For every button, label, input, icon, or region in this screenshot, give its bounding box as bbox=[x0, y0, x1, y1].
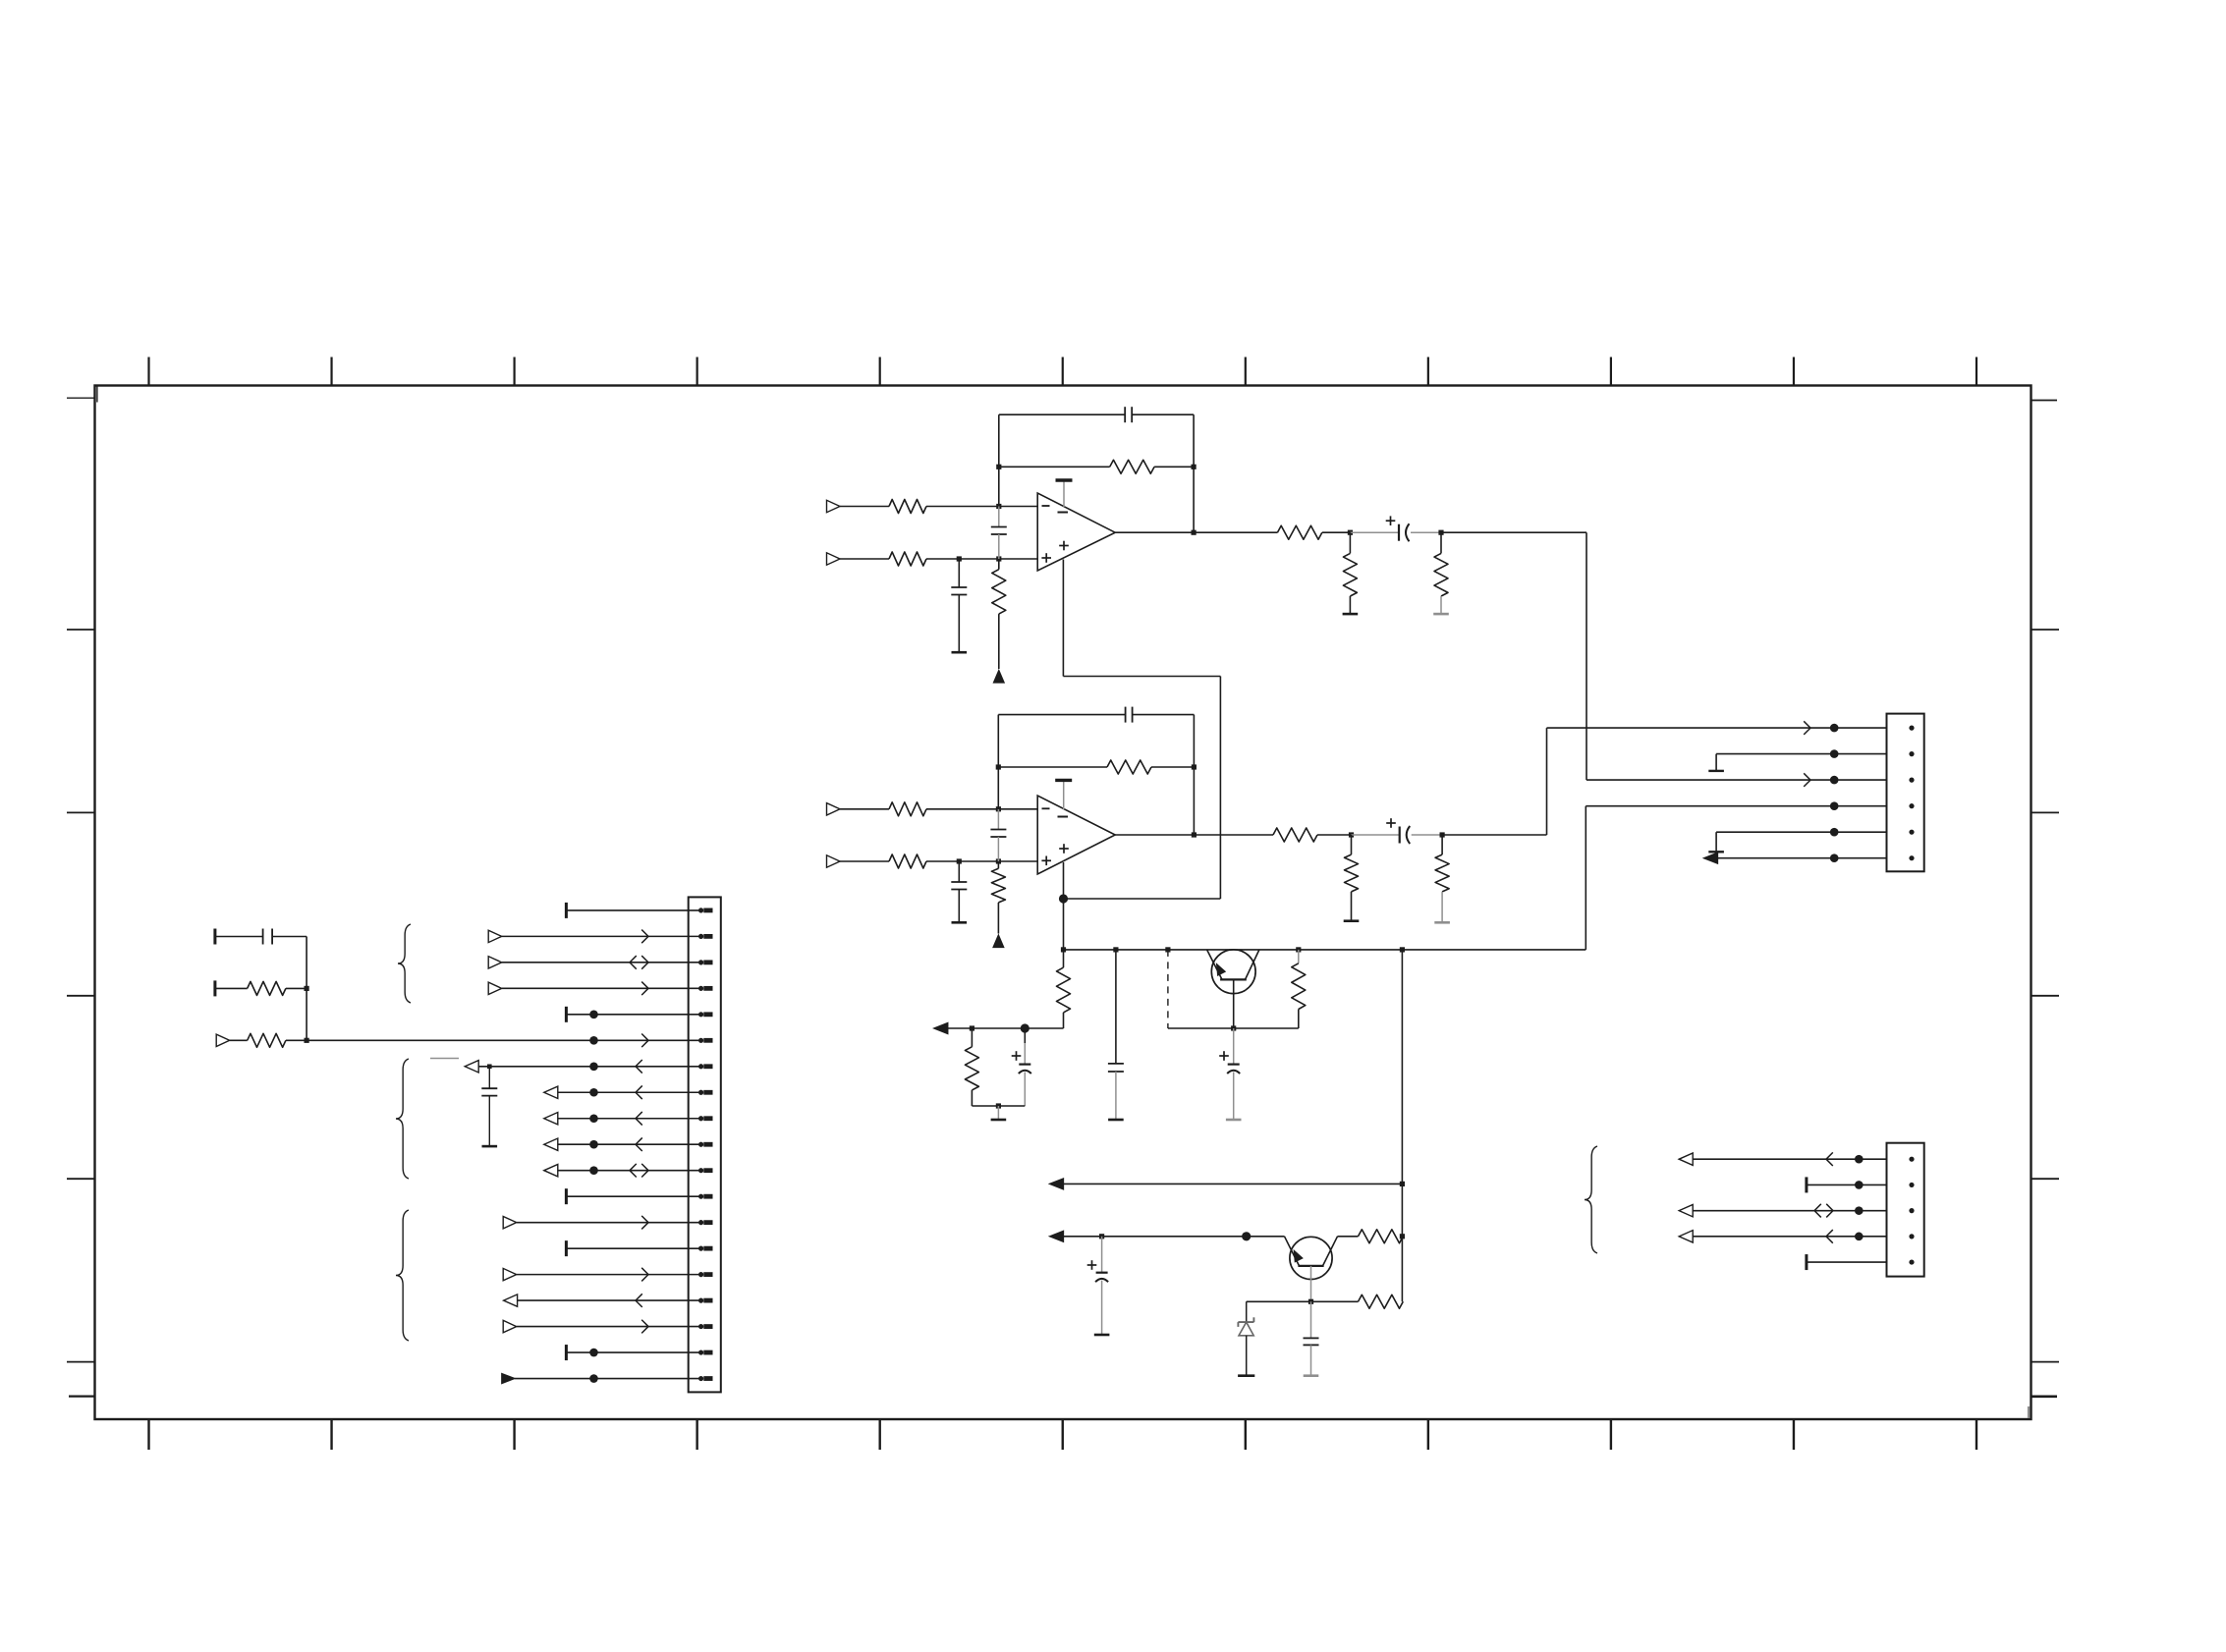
brace B3 (CN1 pins 13-17) bbox=[396, 1210, 409, 1341]
CN1 pin6 chevron bbox=[641, 1034, 648, 1048]
node J5 bbox=[1192, 465, 1196, 469]
top-right corner register mark bbox=[2031, 400, 2058, 402]
ground bar under D4 bbox=[1238, 1374, 1254, 1377]
capacitor C5 (across op-amp inputs) bbox=[990, 809, 1006, 861]
vertical tie wire bbox=[306, 937, 307, 1041]
CN3 pin4 wire with open arrow bbox=[1679, 1231, 1886, 1242]
resistor R4 (feedback) bbox=[1110, 460, 1154, 473]
node D1 (junction dot) bbox=[1059, 894, 1068, 903]
feedback loop wire (IC1b) bbox=[998, 715, 1194, 835]
node J27 bbox=[1400, 1234, 1405, 1239]
resistor R8 bbox=[889, 802, 926, 816]
node J14 bbox=[1192, 832, 1196, 837]
Q1 emitter slant bbox=[1207, 950, 1222, 980]
CN1 pin5 bar terminal bbox=[565, 1007, 568, 1022]
ground bar under C12 bbox=[1094, 1334, 1110, 1337]
Q2 base lead bbox=[1310, 1266, 1312, 1301]
resistor R15 (bus to base rail) bbox=[1057, 950, 1071, 1028]
capacitor C13 (base to bar) bbox=[1304, 1301, 1319, 1374]
node J23 bbox=[996, 1103, 1001, 1108]
node J3 bbox=[996, 556, 1001, 561]
CN1 pin19 node dot bbox=[589, 1374, 598, 1383]
feedback loop wire (IC1a) bbox=[999, 414, 1194, 532]
CN1 pin17 open arrow bbox=[503, 1320, 517, 1332]
terminal bar under C2 bbox=[952, 651, 968, 654]
connector arrow IN3 (inverting input feed) bbox=[827, 803, 841, 815]
ground bar under R13 bbox=[1344, 919, 1360, 922]
CN2 pin1 chevron bbox=[1804, 721, 1810, 735]
connector CN1 box bbox=[689, 897, 721, 1392]
bus drop wire bbox=[1401, 950, 1403, 1301]
wire bbox=[272, 936, 306, 938]
CN1 pin10 wire bbox=[558, 1143, 701, 1145]
capacitor C10 (bus to bar) bbox=[1108, 950, 1124, 1119]
capacitor C1 (across op-amp inputs) bbox=[991, 507, 1007, 560]
CN1 pin4 chevron bbox=[641, 982, 648, 996]
CN1 pin3 wire bbox=[502, 962, 701, 964]
node J10 bbox=[957, 858, 962, 863]
node J30 bbox=[305, 1038, 309, 1043]
CN1 pin7 node bbox=[487, 1064, 492, 1069]
CN3 pin1 node dot bbox=[1855, 1155, 1864, 1164]
CN3 pin4 chevron bbox=[1826, 1230, 1833, 1243]
resistor R12 (output series) bbox=[1273, 828, 1317, 842]
Q2 emitter wire with arrow bbox=[1050, 1231, 1285, 1241]
wire bbox=[926, 558, 1037, 560]
wire bbox=[840, 558, 889, 560]
IC1a minus sign at pin bbox=[1042, 505, 1050, 507]
top-left corner register mark bbox=[67, 386, 97, 403]
capacitor C9 polarized (+) bbox=[1012, 1028, 1031, 1106]
CN2 pin3 chevron bbox=[1804, 773, 1810, 787]
wire IC1b output to CN2 pin1 bbox=[1442, 728, 1546, 835]
CN1 pin18 wire bbox=[566, 1351, 700, 1353]
IC1a power pin bar bbox=[1056, 480, 1073, 507]
CN1 pin1 wire bbox=[566, 909, 700, 911]
CN1 pin9 open arrow bbox=[544, 1113, 558, 1125]
wire bbox=[230, 1039, 248, 1041]
IC1b power pin bar bbox=[1055, 780, 1072, 809]
CN1 pin2 open arrow bbox=[488, 930, 502, 942]
wire bbox=[215, 987, 248, 989]
resistor R21 bbox=[248, 1033, 286, 1047]
CN1 pin15 open arrow bbox=[503, 1268, 517, 1280]
CN1 pin3 open arrow bbox=[488, 957, 502, 968]
ground bar under C13 bbox=[1304, 1374, 1319, 1377]
wire bbox=[840, 808, 889, 810]
node J4 bbox=[996, 465, 1001, 469]
CN1 pin18 node dot bbox=[589, 1349, 598, 1357]
transistor Q1 circle bbox=[1211, 950, 1255, 994]
CN2 pin2 node dot bbox=[1830, 749, 1839, 758]
CN1 pin7 open arrow bbox=[465, 1061, 478, 1073]
terminal bar under C11 bbox=[1226, 1119, 1242, 1122]
Q1 emitter arrow bbox=[1217, 964, 1225, 975]
CN1 pin4 open arrow bbox=[488, 982, 502, 994]
capacitor C7 (feedback) bbox=[1126, 707, 1133, 723]
node J17 bbox=[1061, 947, 1066, 952]
zener diode D4 bbox=[1238, 1301, 1253, 1374]
node J1 bbox=[996, 504, 1001, 509]
resistor R7 (shunt) bbox=[1434, 532, 1448, 614]
IC1a plus sign inner bbox=[1059, 541, 1069, 551]
CN3 pin1 chevron bbox=[1826, 1152, 1833, 1166]
CN3 pin2 node dot bbox=[1855, 1181, 1864, 1189]
CN3 pin4 node dot bbox=[1855, 1233, 1864, 1241]
bottom-left corner register mark bbox=[69, 1395, 95, 1397]
terminal bar under C14 bbox=[482, 1145, 498, 1148]
CN1 pin12 wire bbox=[566, 1195, 700, 1197]
CN2 pin6 wire with filled arrow bbox=[1704, 853, 1887, 863]
node J15 bbox=[1349, 832, 1354, 837]
node J29 bbox=[305, 986, 309, 991]
CN2 pin5 wire bbox=[1716, 831, 1886, 833]
resistor R16 bbox=[965, 1028, 978, 1106]
CN1 pin contacts bbox=[698, 908, 713, 1381]
node J28 bbox=[1308, 1299, 1313, 1304]
resistor R10 (non-inv input to rail arrow) bbox=[991, 861, 1005, 934]
capacitor C6 (to terminal bar) bbox=[951, 861, 967, 922]
op-amp IC1b triangle bbox=[1037, 796, 1115, 874]
capacitor C11 polarized (+) bbox=[1219, 1028, 1240, 1119]
CN1 pin7 node dot bbox=[589, 1062, 598, 1071]
CN1 pin19 wire bbox=[515, 1378, 701, 1380]
CN1 pin2 wire bbox=[502, 935, 701, 937]
label dash bbox=[430, 1058, 459, 1060]
IC1a output wire bbox=[1115, 531, 1277, 533]
node J13 bbox=[1192, 764, 1196, 769]
CN1 pin15 chevron bbox=[641, 1268, 648, 1282]
node J8 bbox=[1438, 530, 1443, 535]
CN1 pin12 bar terminal bbox=[565, 1188, 568, 1204]
CN1 pin1 bar terminal bbox=[565, 903, 568, 918]
ground stub bbox=[997, 1106, 999, 1119]
CN1 pin8 wire bbox=[558, 1091, 701, 1093]
CN1 pin11 node dot bbox=[589, 1166, 598, 1175]
resistor R1 bbox=[889, 500, 926, 514]
arrow line to left (filled) bbox=[934, 1023, 1064, 1034]
node J25 bbox=[1400, 1182, 1405, 1186]
resistor R2 bbox=[889, 552, 926, 566]
CN1 pin16 open arrow bbox=[504, 1294, 518, 1306]
CN2 pin3 node dot bbox=[1830, 776, 1839, 785]
Q1 base lead bbox=[1233, 979, 1235, 1028]
wire bbox=[926, 808, 1037, 810]
node J9 bbox=[996, 806, 1001, 811]
node J7 bbox=[1348, 530, 1353, 535]
connector arrow IN5 bbox=[216, 1034, 230, 1046]
node J19 bbox=[1165, 947, 1170, 952]
wire bbox=[926, 860, 1037, 862]
ground bar under R7 bbox=[1433, 613, 1449, 616]
connector arrow IN4 (non-inverting input feed) bbox=[827, 855, 841, 867]
CN1 pin9 node dot bbox=[589, 1114, 598, 1123]
CN1 pin8 chevron bbox=[636, 1085, 642, 1099]
terminal bar T1 bbox=[213, 929, 216, 945]
CN1 pin6 node dot bbox=[589, 1036, 598, 1045]
wire IC1a output to CN2 pin3 bbox=[1441, 532, 1586, 780]
bottom-right corner register mark bbox=[2029, 1397, 2057, 1418]
feedback resistor row wire (IC1a) bbox=[999, 466, 1194, 468]
transistor Q2 circle bbox=[1290, 1237, 1332, 1279]
resistor R5 (output series) bbox=[1277, 525, 1321, 539]
resistor R20 bbox=[248, 981, 286, 995]
CN1 pin19 filled arrow bbox=[502, 1374, 515, 1384]
CN2 pin4 wire bbox=[1586, 805, 1886, 807]
top border tick marks bbox=[149, 358, 1977, 386]
CN1 pin9 chevron bbox=[636, 1112, 642, 1126]
CN1 pin8 node dot bbox=[589, 1088, 598, 1097]
Q2 collector wire bbox=[1338, 1236, 1359, 1238]
IC1a plus sign at pin bbox=[1041, 553, 1051, 563]
CN1 pin4 wire bbox=[502, 987, 701, 989]
wire R16/C9 bottom rail bbox=[972, 1105, 1025, 1107]
capacitor C2 (to terminal bar) bbox=[951, 559, 967, 652]
CN1 pin9 wire bbox=[558, 1118, 701, 1120]
CN1 pin14 wire bbox=[566, 1247, 700, 1249]
wire bbox=[840, 860, 889, 862]
IC1b output wire bbox=[1115, 834, 1273, 836]
capacitor C8 polarized (+) bbox=[1386, 818, 1410, 844]
connector CN3 box bbox=[1887, 1143, 1924, 1277]
resistor R18 (collector) bbox=[1359, 1230, 1404, 1243]
node J21 bbox=[1400, 947, 1405, 952]
CN1 pin18 bar terminal bbox=[565, 1345, 568, 1360]
IC1b minus sign at pin bbox=[1042, 807, 1050, 809]
rail arrow A1 (filled up triangle) bbox=[994, 671, 1005, 684]
Q2 emitter slant bbox=[1285, 1237, 1300, 1266]
CN1 pin16 chevron bbox=[636, 1294, 642, 1307]
CN1 pin15 wire bbox=[517, 1274, 701, 1276]
IC1b plus sign at pin bbox=[1041, 856, 1051, 866]
bus wire bbox=[1064, 949, 1586, 951]
IC1b plus sign inner bbox=[1059, 844, 1069, 854]
node J26 bbox=[1099, 1234, 1104, 1239]
wire bbox=[926, 506, 1037, 508]
brace B1 (CN1 pins 2-4) bbox=[398, 924, 411, 1003]
CN1 pin10 chevron bbox=[636, 1137, 642, 1151]
CN3 pin3 wire with open arrow bbox=[1679, 1204, 1886, 1216]
node J2 bbox=[957, 556, 962, 561]
node J18 bbox=[1113, 947, 1118, 952]
arrow line 2 to left (filled) bbox=[1050, 1179, 1403, 1189]
CN3 pin2 bar terminal bbox=[1805, 1177, 1808, 1192]
Q2 collector slant bbox=[1323, 1237, 1338, 1266]
CN1 pin11 open arrow bbox=[544, 1165, 558, 1177]
CN2 pin1 wire bbox=[1547, 727, 1887, 729]
node J6 bbox=[1192, 530, 1196, 535]
CN1 pin2 chevron bbox=[641, 930, 648, 944]
CN2 pin contacts bbox=[1909, 726, 1914, 861]
IC1b minus sign inner bbox=[1058, 816, 1069, 818]
capacitor C4 polarized (+) bbox=[1386, 516, 1410, 541]
node D2 (junction dot) bbox=[1021, 1023, 1030, 1032]
connector CN2 box bbox=[1887, 714, 1924, 872]
resistor R11 (feedback) bbox=[1107, 760, 1151, 774]
resistor R9 bbox=[889, 854, 926, 868]
terminal bar T2 bbox=[213, 980, 216, 996]
CN2 pin5 node dot bbox=[1830, 828, 1839, 837]
CN1 pin5 node dot bbox=[589, 1011, 598, 1019]
CN2 pin1 node dot bbox=[1830, 724, 1839, 733]
right border tick marks bbox=[2031, 630, 2060, 1362]
Q2 emitter arrow bbox=[1294, 1250, 1302, 1261]
capacitor C3 (feedback) bbox=[1125, 407, 1132, 422]
CN1 pin13 chevron bbox=[641, 1216, 648, 1230]
wire bbox=[215, 936, 263, 938]
resistor R14 (shunt) bbox=[1435, 835, 1449, 922]
resistor R17 (bus to base rail) bbox=[1292, 950, 1306, 1028]
capacitor C12 polarized (+) bbox=[1087, 1237, 1108, 1334]
CN1 pin13 wire bbox=[517, 1222, 701, 1224]
CN3 pin1 wire with open arrow bbox=[1679, 1153, 1886, 1165]
wire bbox=[1352, 834, 1400, 836]
CN1 pin17 wire bbox=[517, 1326, 701, 1328]
CN1 pin6 wire bbox=[306, 1039, 700, 1041]
brace B2 (CN1 pins 7-11) bbox=[396, 1059, 409, 1179]
Q2 internal bar bbox=[1298, 1265, 1323, 1267]
CN3 pin3 node dot bbox=[1855, 1206, 1864, 1215]
node J11 bbox=[996, 858, 1001, 863]
node D3 (junction dot) bbox=[1242, 1232, 1251, 1240]
ground bar under R14 bbox=[1434, 921, 1450, 924]
wire bbox=[1411, 531, 1441, 533]
connector arrow IN2 (non-inverting input feed) bbox=[827, 553, 841, 565]
rail arrow A2 (filled up triangle) bbox=[993, 935, 1004, 948]
border frame bbox=[95, 386, 2031, 1420]
wire bbox=[286, 987, 306, 989]
terminal bar under C6 bbox=[952, 921, 968, 924]
CN1 pin11 double chevron bbox=[630, 1164, 648, 1178]
CN3 pin2 wire bbox=[1807, 1184, 1887, 1185]
CN1 pin5 wire bbox=[566, 1014, 700, 1016]
node J12 bbox=[996, 764, 1001, 769]
CN1 pin10 node dot bbox=[589, 1140, 598, 1149]
wire bbox=[840, 506, 889, 508]
terminal bar under C10 bbox=[1108, 1119, 1124, 1122]
CN1 pin7 chevron bbox=[636, 1060, 642, 1074]
CN1 pin11 wire bbox=[558, 1170, 701, 1172]
feedback resistor row wire (IC1b) bbox=[998, 766, 1194, 768]
node J20 bbox=[1296, 947, 1301, 952]
CN2 pin6 node dot bbox=[1830, 854, 1839, 862]
resistor R19 (base rail) bbox=[1359, 1294, 1404, 1308]
CN2 pin2 wire bbox=[1716, 753, 1886, 755]
CN2 pin2 stub terminal bbox=[1708, 754, 1724, 771]
resistor R6 (shunt) bbox=[1343, 532, 1357, 614]
capacitor C15 bbox=[263, 929, 273, 945]
wire bbox=[1412, 834, 1442, 836]
Q1 internal bar bbox=[1220, 978, 1247, 980]
wire IC1b V- pin bbox=[1063, 862, 1065, 950]
wire bbox=[1350, 531, 1399, 533]
wire bbox=[286, 1039, 306, 1041]
base rail wire Q1 bbox=[1168, 1027, 1299, 1029]
Q2 base rail wire bbox=[1247, 1300, 1359, 1302]
CN1 pin17 chevron bbox=[641, 1320, 648, 1334]
op-amp IC1a triangle bbox=[1037, 493, 1115, 571]
connector arrow IN1 (inverting input feed) bbox=[827, 500, 841, 512]
CN3 pin contacts bbox=[1909, 1157, 1914, 1265]
node J22 bbox=[970, 1025, 974, 1030]
wire IC1a V- pin jog bbox=[1063, 560, 1220, 900]
brace for CN3 harness bbox=[1585, 1146, 1597, 1253]
CN1 pin8 open arrow bbox=[544, 1086, 558, 1098]
resistor R13 (shunt) bbox=[1345, 835, 1359, 921]
CN1 pin7 wire bbox=[478, 1066, 700, 1068]
capacitor C14 (pin7 branch) bbox=[481, 1067, 497, 1145]
CN2 pin4 node dot bbox=[1830, 801, 1839, 810]
wire bbox=[1317, 834, 1352, 836]
dashed wire (shield) bbox=[1167, 950, 1169, 1028]
CN3 pin5 bar terminal bbox=[1805, 1254, 1808, 1270]
CN1 pin10 open arrow bbox=[544, 1138, 558, 1150]
CN3 pin5 wire bbox=[1807, 1261, 1887, 1263]
node J16 bbox=[1440, 832, 1445, 837]
wire bbox=[1322, 531, 1351, 533]
CN2 pin3 wire bbox=[1586, 779, 1887, 781]
left border tick marks bbox=[67, 630, 95, 1362]
IC1a minus sign inner bbox=[1058, 512, 1069, 514]
wire CN2 pin4 drop bbox=[1585, 806, 1586, 950]
CN1 pin13 open arrow bbox=[503, 1216, 517, 1228]
CN2 pin5 stub terminal bbox=[1708, 832, 1724, 852]
Q1 collector slant bbox=[1246, 950, 1259, 980]
bottom border tick marks bbox=[149, 1419, 1977, 1450]
ground bar G1 bbox=[991, 1119, 1007, 1122]
ground bar under R6 bbox=[1343, 613, 1359, 616]
resistor R3 (non-inv input to rail arrow) bbox=[992, 559, 1006, 669]
CN1 pin14 bar terminal bbox=[565, 1240, 568, 1256]
CN1 pin3 double chevron bbox=[630, 956, 648, 969]
node J24 bbox=[1231, 1025, 1236, 1030]
CN1 pin16 wire bbox=[518, 1299, 701, 1301]
CN3 pin3 double chevron bbox=[1814, 1204, 1833, 1218]
